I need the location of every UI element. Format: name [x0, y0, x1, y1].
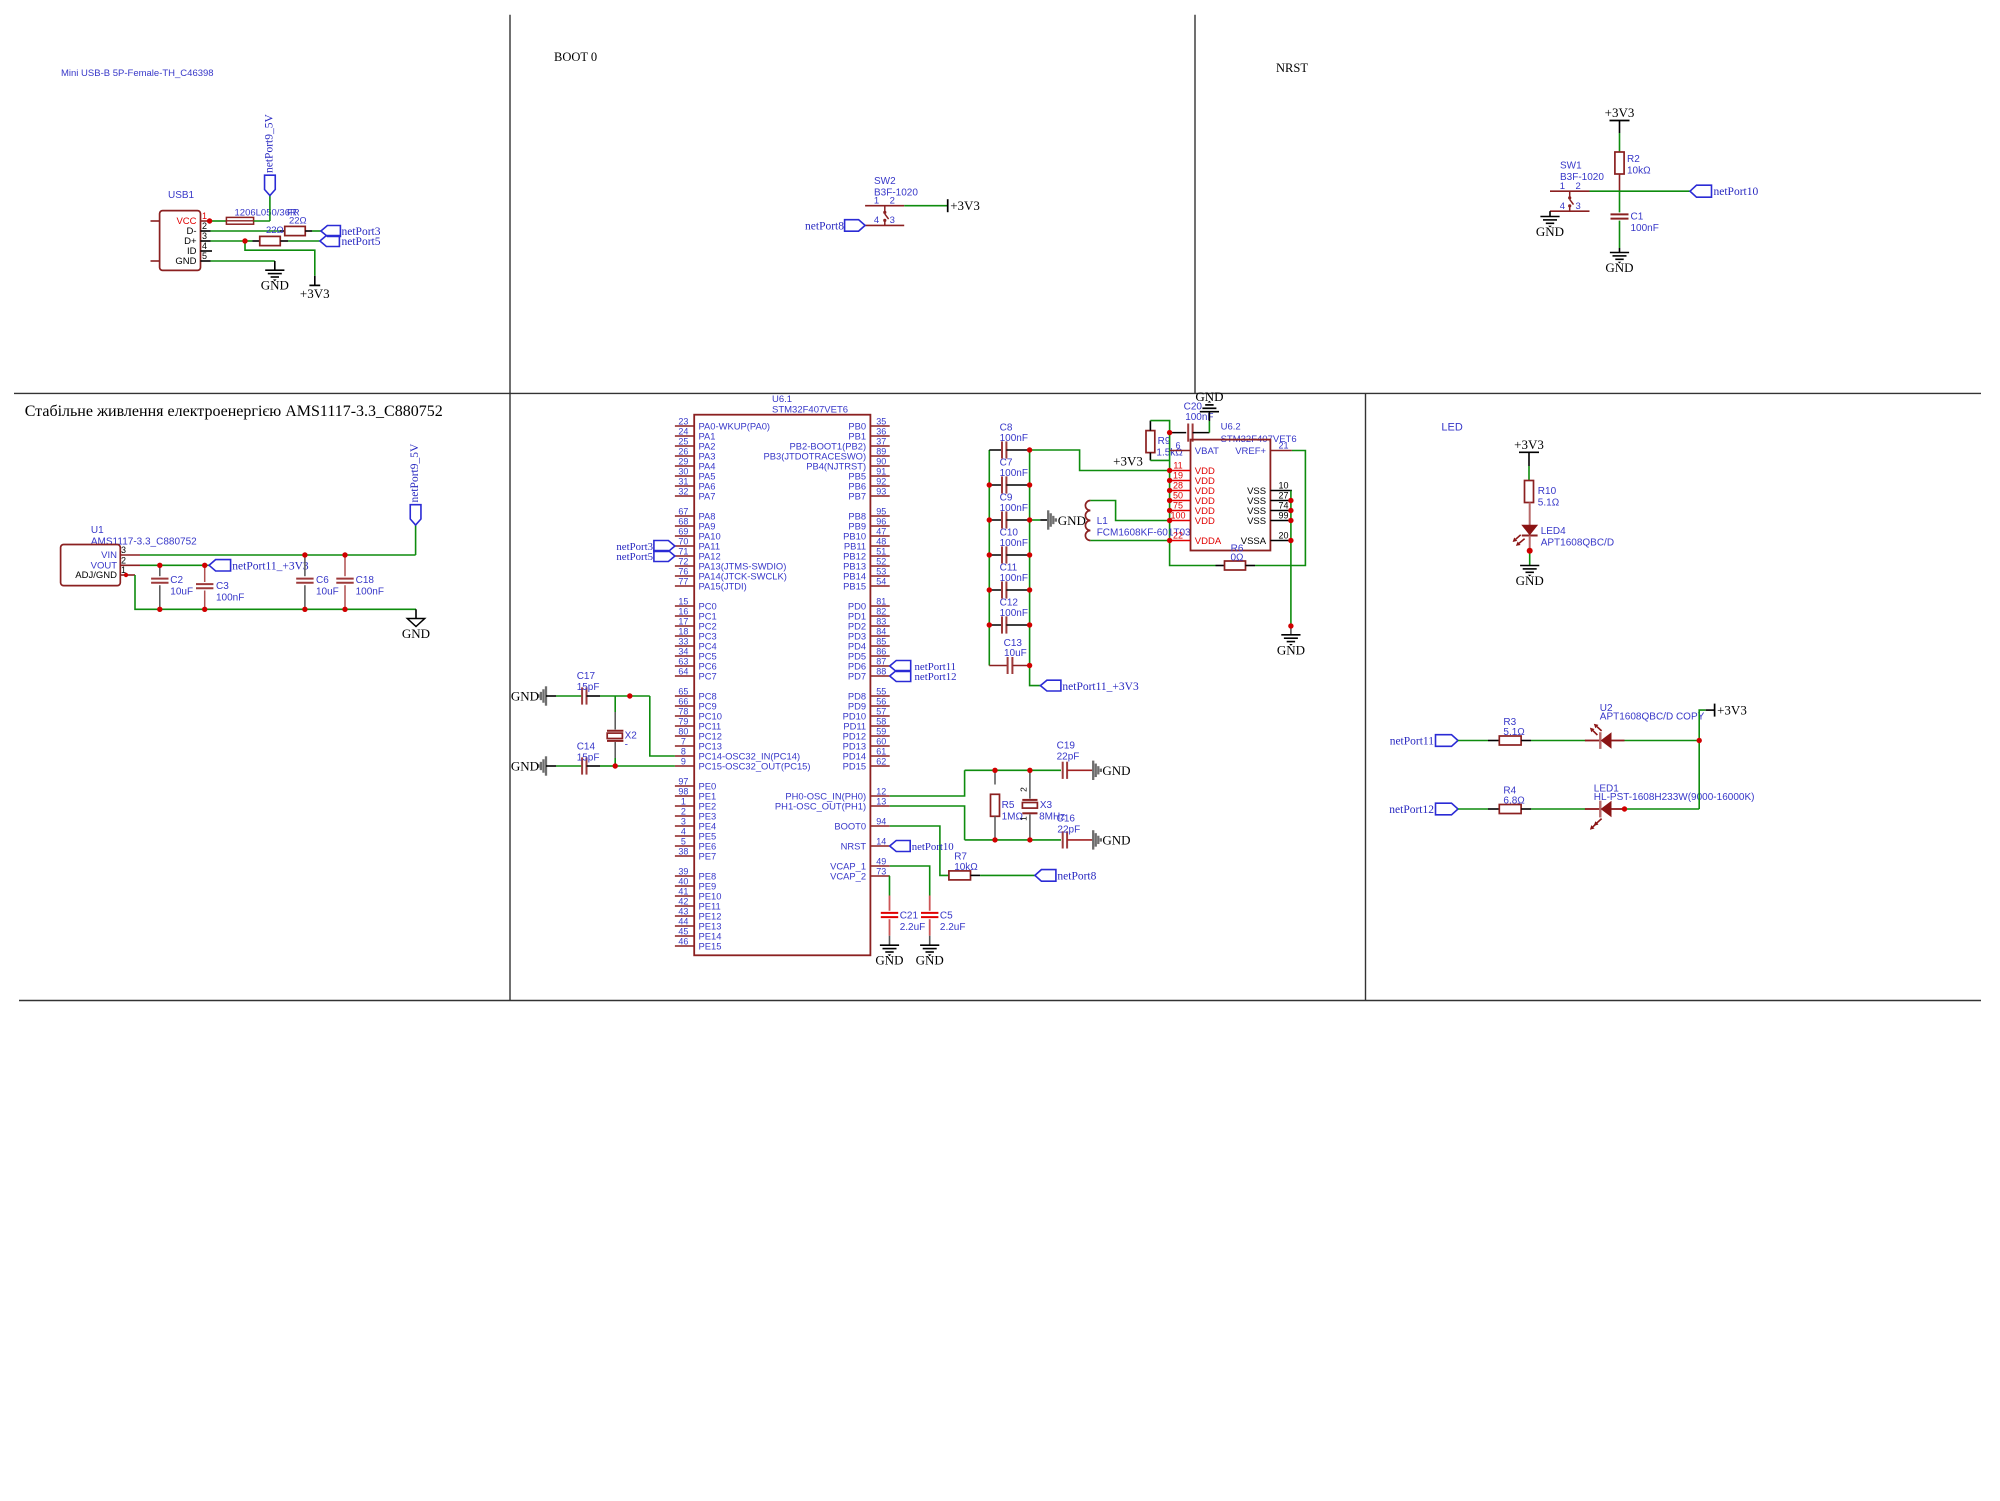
mcu pin 26 PA3 — [675, 455, 694, 457]
sheet divider vertical x1365 — [1365, 393, 1367, 1000]
svg-text:APT1608QBC/D: APT1608QBC/D — [1541, 538, 1614, 549]
svg-text:NRST: NRST — [841, 840, 867, 851]
svg-text:VSS: VSS — [1247, 516, 1266, 527]
svg-text:SW1: SW1 — [1560, 161, 1582, 172]
svg-text:1: 1 — [1019, 816, 1029, 821]
svg-text:PC7: PC7 — [699, 670, 717, 681]
svg-text:+3V3: +3V3 — [1605, 105, 1635, 120]
svg-text:100nF: 100nF — [1000, 608, 1028, 619]
power flag +3V3 (NRST) — [1610, 120, 1630, 122]
svg-text:62: 62 — [876, 756, 886, 766]
mcu pin 77 PA15(JTDI) — [675, 585, 694, 587]
svg-text:43: 43 — [678, 906, 688, 916]
svg-text:98: 98 — [678, 786, 688, 796]
svg-text:100nF: 100nF — [1631, 223, 1659, 234]
svg-text:3: 3 — [890, 215, 895, 226]
svg-text:50: 50 — [1173, 491, 1183, 501]
svg-text:C6: C6 — [316, 575, 329, 586]
resistor R2 10k — [1615, 152, 1624, 174]
junction R5 bottom — [992, 837, 997, 842]
capacitor C2 10uF — [159, 565, 161, 576]
svg-text:GND: GND — [1195, 389, 1223, 404]
svg-text:20: 20 — [1278, 531, 1288, 541]
svg-text:C1: C1 — [1631, 212, 1644, 223]
capacitor C9 100nF — [989, 519, 1002, 521]
svg-text:2.2uF: 2.2uF — [900, 922, 926, 933]
junction — [124, 573, 128, 577]
svg-text:5.1Ω: 5.1Ω — [1538, 497, 1560, 508]
svg-text:74: 74 — [1278, 501, 1288, 511]
USB1 left stub pin GND side — [151, 260, 160, 262]
mcu pin 12 PH0-OSC_IN(PH0) — [870, 795, 889, 797]
wire L1 bottom to VDDA — [1090, 540, 1169, 542]
svg-text:AMS1117-3.3_C880752: AMS1117-3.3_C880752 — [91, 537, 197, 548]
svg-text:75: 75 — [1173, 501, 1183, 511]
junction GND node — [1288, 623, 1293, 628]
USB1 pin 5 GND — [201, 260, 211, 262]
svg-text:3: 3 — [681, 816, 686, 826]
svg-text:15: 15 — [678, 596, 688, 606]
svg-text:GND: GND — [511, 759, 539, 774]
svg-text:PE7: PE7 — [699, 850, 717, 861]
svg-text:C17: C17 — [577, 671, 596, 682]
mcu pin 44 PE13 — [675, 925, 694, 927]
svg-text:76: 76 — [678, 566, 688, 576]
U6.2 pin 28 VDD — [1170, 490, 1191, 492]
mcu pin 36 PB1 — [870, 435, 889, 437]
power flag +3V3 (USB) — [314, 276, 316, 286]
power flag +3V3 (BOOT0) — [947, 199, 949, 212]
power flag +3V3 (LED rows) — [1714, 704, 1716, 717]
svg-text:C11: C11 — [1000, 563, 1018, 574]
junction C9 right — [1027, 517, 1032, 522]
mcu pin 68 PA9 — [675, 525, 694, 527]
svg-text:79: 79 — [678, 716, 688, 726]
svg-text:24: 24 — [678, 426, 688, 436]
svg-text:X3: X3 — [1040, 800, 1053, 811]
svg-text:17: 17 — [678, 616, 688, 626]
svg-text:C9: C9 — [1000, 493, 1013, 504]
mcu pin 41 PE10 — [675, 895, 694, 897]
resistor R? 22ohm (D+ line) — [260, 236, 281, 245]
led LED4 APT1608QBC/D — [1529, 503, 1531, 526]
switch SW1 contacts and lever — [1569, 191, 1571, 197]
svg-text:3: 3 — [121, 545, 126, 555]
svg-text:2: 2 — [681, 806, 686, 816]
switch SW2 contacts and lever — [884, 206, 886, 212]
sheet divider vertical left — [509, 15, 511, 1001]
svg-text:100: 100 — [1170, 511, 1185, 521]
ground GND (USB) — [265, 269, 284, 271]
wire +3V3 net bank to VDD rail — [1030, 450, 1170, 471]
svg-text:14: 14 — [876, 836, 886, 846]
svg-text:+3V3: +3V3 — [300, 286, 330, 301]
svg-text:PC15-OSC32_OUT(PC15): PC15-OSC32_OUT(PC15) — [699, 760, 811, 771]
svg-text:netPort12: netPort12 — [1389, 804, 1434, 816]
junction C2 bottom — [157, 607, 162, 612]
switch SW1 top rail pins 1-2 — [1550, 190, 1590, 192]
wire D- to resistor — [211, 230, 281, 232]
crystal X3 8MHz — [1029, 770, 1031, 798]
svg-text:2: 2 — [890, 195, 895, 206]
svg-text:C19: C19 — [1057, 741, 1076, 752]
svg-text:5.1Ω: 5.1Ω — [1503, 727, 1525, 738]
svg-text:10kΩ: 10kΩ — [1627, 166, 1651, 177]
svg-text:41: 41 — [678, 886, 688, 896]
wire VDDA to R6 — [1170, 541, 1216, 566]
svg-text:85: 85 — [876, 636, 886, 646]
mcu pin 7 PC13 — [675, 745, 694, 747]
svg-text:PE15: PE15 — [699, 940, 722, 951]
capacitor C16 22pF — [1062, 831, 1064, 848]
svg-text:96: 96 — [876, 516, 886, 526]
svg-text:23: 23 — [678, 416, 688, 426]
resistor R7 10k — [949, 871, 971, 880]
svg-text:82: 82 — [876, 606, 886, 616]
mcu pin 33 PC4 — [675, 645, 694, 647]
mcu pin 64 PC7 — [675, 675, 694, 677]
svg-text:3: 3 — [1576, 201, 1581, 212]
power flag +3V3 (R10) — [1519, 451, 1539, 453]
mcu pin 81 PD0 — [870, 605, 889, 607]
U6.2 pin 74 VSS — [1270, 510, 1292, 512]
junction LED +3V3 node — [1697, 738, 1702, 743]
svg-text:VBAT: VBAT — [1195, 446, 1219, 457]
capacitor C21 2.2uF — [889, 896, 891, 911]
svg-text:APT1608QBC/D COPY: APT1608QBC/D COPY — [1600, 712, 1705, 723]
svg-text:2: 2 — [121, 556, 126, 566]
junction VSS rail — [1288, 538, 1293, 543]
mcu pin 47 PB10 — [870, 535, 889, 537]
svg-text:GND: GND — [916, 953, 944, 968]
mcu pin 59 PD12 — [870, 735, 889, 737]
capacitor C5 2.2uF — [929, 896, 931, 911]
svg-text:36: 36 — [876, 426, 886, 436]
mcu pin 86 PD5 — [870, 655, 889, 657]
junction VDD rail — [1167, 478, 1172, 483]
mcu pin 35 PB0 — [870, 425, 889, 427]
svg-text:4: 4 — [681, 826, 686, 836]
resistor R6 0ohm — [1216, 565, 1225, 567]
junction C3 bottom — [202, 607, 207, 612]
svg-text:97: 97 — [678, 776, 688, 786]
svg-text:94: 94 — [876, 816, 886, 826]
junction C18 bottom — [342, 607, 347, 612]
mcu pin 3 PE4 — [675, 825, 694, 827]
junction crystal node top — [627, 693, 632, 698]
USB1 pin 1 VCC — [201, 220, 211, 222]
mcu pin 25 PA2 — [675, 445, 694, 447]
junction VDD rail — [1167, 488, 1172, 493]
svg-text:78: 78 — [678, 706, 688, 716]
net flag netPort10 (NRST section) — [1690, 185, 1712, 197]
U6.2 pin 20 VSSA — [1270, 540, 1292, 542]
junction X3 bottom — [1027, 837, 1032, 842]
switch SW1 bottom rail pins 4-3 — [1550, 210, 1590, 212]
svg-text:10: 10 — [1278, 481, 1288, 491]
mcu pin 29 PA4 — [675, 465, 694, 467]
svg-text:45: 45 — [678, 926, 688, 936]
ground GND triangle (AMS) — [415, 609, 417, 618]
ground flag GND (C14) — [545, 756, 547, 775]
svg-text:netPort11_+3V3: netPort11_+3V3 — [1062, 681, 1139, 693]
junction VDD rail — [1167, 518, 1172, 523]
net flag netPort5 — [320, 236, 340, 247]
svg-text:31: 31 — [678, 476, 688, 486]
svg-text:66: 66 — [678, 696, 688, 706]
svg-text:51: 51 — [876, 546, 886, 556]
capacitor C20 100nF — [1170, 432, 1187, 434]
svg-text:30: 30 — [678, 466, 688, 476]
capacitor C6 10uF — [304, 555, 306, 576]
capacitor C11 100nF — [989, 589, 1002, 591]
svg-text:52: 52 — [876, 556, 886, 566]
svg-text:LED4: LED4 — [1541, 526, 1566, 537]
USB1 pin 4 ID — [201, 250, 213, 252]
mcu pin 13 PH1-OSC_OUT(PH1) — [870, 805, 889, 807]
svg-text:61: 61 — [876, 746, 886, 756]
wire R9 bottom to rail — [1149, 453, 1151, 461]
svg-text:C18: C18 — [356, 575, 375, 586]
resistor R10 5.1ohm — [1525, 481, 1534, 503]
mcu pin 67 PA8 — [675, 515, 694, 517]
junction C2 top — [157, 563, 162, 568]
mcu pin 53 PB14 — [870, 575, 889, 577]
wire SW1/R2 row to netPort10 — [1590, 190, 1691, 192]
svg-text:40: 40 — [678, 876, 688, 886]
capacitor C3 100nF — [204, 565, 206, 582]
svg-text:7: 7 — [681, 736, 686, 746]
svg-text:56: 56 — [876, 696, 886, 706]
svg-text:53: 53 — [876, 566, 886, 576]
mcu pin 56 PD9 — [870, 705, 889, 707]
capacitor C12 100nF — [989, 624, 1002, 626]
junction R5 top — [992, 768, 997, 773]
wire netPort11 to R3 — [1458, 740, 1488, 742]
junction C11 right — [1027, 587, 1032, 592]
svg-text:49: 49 — [876, 856, 886, 866]
U6.2 pin 11 VDD — [1170, 470, 1191, 472]
sheet divider vertical x1195 — [1194, 15, 1196, 394]
svg-text:U6.1: U6.1 — [772, 394, 792, 405]
svg-text:100nF: 100nF — [356, 587, 384, 598]
wire ADJ/GND bottom rail — [135, 575, 416, 609]
capacitor bank right rail — [1029, 450, 1031, 666]
svg-text:VDDA: VDDA — [1195, 536, 1222, 547]
svg-text:88: 88 — [876, 666, 886, 676]
wire SW2 pin2 to +3V3 — [904, 205, 948, 207]
svg-text:26: 26 — [678, 446, 688, 456]
junction VCC node — [207, 218, 212, 223]
svg-text:57: 57 — [876, 706, 886, 716]
U6.2 pin 75 VDD — [1170, 510, 1191, 512]
junction C20 node — [1167, 430, 1172, 435]
svg-text:80: 80 — [678, 726, 688, 736]
svg-text:37: 37 — [876, 436, 886, 446]
U6.2 pin 22 VDDA — [1170, 540, 1191, 542]
svg-text:LED: LED — [1441, 422, 1462, 434]
svg-text:VDD: VDD — [1195, 516, 1215, 527]
net flag netPort8 (BOOT0) — [845, 220, 866, 232]
svg-text:60: 60 — [876, 736, 886, 746]
junction C12 right — [1027, 622, 1032, 627]
svg-text:10uF: 10uF — [170, 587, 193, 598]
mcu pin 66 PC9 — [675, 705, 694, 707]
U6.2 pin 19 VDD — [1170, 480, 1191, 482]
svg-text:netPort10: netPort10 — [1714, 186, 1759, 198]
wire LED1 to +3V3 vertical — [1625, 808, 1700, 810]
svg-text:C21: C21 — [900, 910, 919, 921]
junction C7 left — [987, 482, 992, 487]
svg-text:89: 89 — [876, 446, 886, 456]
svg-text:55: 55 — [876, 686, 886, 696]
mcu pin 42 PE11 — [675, 905, 694, 907]
mcu pin 69 PA10 — [675, 535, 694, 537]
mcu pin 78 PC10 — [675, 715, 694, 717]
ground GND (C1) — [1610, 252, 1629, 254]
mcu U6.2 body — [1191, 440, 1271, 551]
svg-text:1: 1 — [874, 195, 879, 206]
svg-text:C12: C12 — [1000, 598, 1019, 609]
svg-text:C10: C10 — [1000, 528, 1019, 539]
U6.2 pin 21 VREF+ — [1270, 450, 1292, 452]
svg-text:1: 1 — [681, 796, 686, 806]
svg-text:68: 68 — [678, 516, 688, 526]
svg-text:PA7: PA7 — [699, 490, 716, 501]
mcu pin 30 PA5 — [675, 475, 694, 477]
svg-text:100nF: 100nF — [1000, 573, 1028, 584]
svg-text:C5: C5 — [940, 910, 953, 921]
svg-text:1: 1 — [202, 211, 207, 221]
mcu pin 63 PC6 — [675, 665, 694, 667]
junction C8 right — [1027, 447, 1032, 452]
sheet divider horizontal top — [14, 392, 1981, 394]
junction X3 top — [1027, 768, 1032, 773]
wire U2 to +3V3 junction — [1625, 740, 1700, 742]
net flag netPort3 (PA11) — [654, 541, 675, 552]
svg-text:SW2: SW2 — [874, 176, 896, 187]
ground GND (C21) — [880, 944, 899, 946]
junction VSS rail — [1288, 518, 1293, 523]
svg-text:86: 86 — [876, 646, 886, 656]
svg-text:+3V3: +3V3 — [1717, 703, 1747, 718]
mcu pin 52 PB13 — [870, 565, 889, 567]
wire D+ branch to +3V3 — [245, 241, 315, 276]
svg-text:+3V3: +3V3 — [950, 198, 980, 213]
svg-text:28: 28 — [1173, 481, 1183, 491]
svg-text:72: 72 — [678, 556, 688, 566]
resistor R5 1M — [994, 770, 996, 784]
osc bottom rail — [965, 839, 1061, 841]
svg-text:netPort11_+3V3: netPort11_+3V3 — [232, 560, 309, 572]
mcu pin 4 PE5 — [675, 835, 694, 837]
mcu pin 54 PB15 — [870, 585, 889, 587]
mcu pin 97 PE0 — [675, 785, 694, 787]
mcu pin 14 NRST — [870, 845, 889, 847]
svg-text:92: 92 — [876, 476, 886, 486]
svg-text:15pF: 15pF — [577, 753, 600, 764]
junction C9 left — [987, 517, 992, 522]
svg-text:22: 22 — [1173, 531, 1183, 541]
svg-text:2: 2 — [202, 221, 207, 231]
U6.2 pin 50 VDD — [1170, 500, 1191, 502]
svg-text:100nF: 100nF — [1000, 538, 1028, 549]
vss rail vertical — [1290, 491, 1292, 627]
mcu pin 31 PA6 — [675, 485, 694, 487]
ground GND (C5) — [920, 944, 939, 946]
junction D+ node — [242, 238, 247, 243]
net flag netPort11_+3V3 (AMS) — [209, 560, 231, 571]
mcu pin 79 PC11 — [675, 725, 694, 727]
wire VIN rail to netPort9_5V — [140, 554, 416, 556]
mcu pin 62 PD15 — [870, 765, 889, 767]
wire VREF+ down — [1291, 451, 1306, 566]
svg-text:PD7: PD7 — [848, 670, 866, 681]
mcu pin 61 PD14 — [870, 755, 889, 757]
wire L1 top to VDD100 — [1090, 501, 1169, 521]
svg-text:6: 6 — [1175, 441, 1180, 451]
mcu pin 76 PA14(JTCK-SWCLK) — [675, 575, 694, 577]
svg-text:netPort9_5V: netPort9_5V — [264, 114, 276, 173]
junction VDD rail — [1167, 468, 1172, 473]
junction C7 right — [1027, 482, 1032, 487]
svg-text:6.8Ω: 6.8Ω — [1503, 796, 1525, 807]
led U2 APT1608QBC/D COPY — [1585, 740, 1600, 742]
svg-text:99: 99 — [1278, 511, 1288, 521]
svg-text:29: 29 — [678, 456, 688, 466]
regulator U1 body — [61, 545, 121, 586]
wire C20 to GND flag — [1208, 421, 1210, 433]
wire PH1 to osc bottom rail — [890, 806, 965, 840]
svg-text:38: 38 — [678, 846, 688, 856]
mcu pin 39 PE8 — [675, 875, 694, 877]
wire netPort12 to R4 — [1458, 808, 1488, 810]
net flag netPort10 (NRST pin) — [890, 841, 911, 852]
svg-text:+3V3: +3V3 — [1514, 437, 1544, 452]
mcu pin 24 PA1 — [675, 435, 694, 437]
connector USB1 body — [160, 211, 201, 271]
svg-text:-: - — [625, 740, 628, 751]
mcu pin 92 PB6 — [870, 485, 889, 487]
svg-text:90: 90 — [876, 456, 886, 466]
junction C11 left — [987, 587, 992, 592]
svg-text:L1: L1 — [1097, 516, 1109, 527]
ground GND (U6.2) — [1290, 626, 1292, 635]
svg-text:U1: U1 — [91, 525, 104, 536]
net flag netPort3 — [321, 226, 341, 237]
svg-text:1: 1 — [1560, 181, 1565, 192]
svg-text:16: 16 — [678, 606, 688, 616]
svg-text:25: 25 — [678, 436, 688, 446]
mcu pin 71 PA12 — [675, 555, 694, 557]
mcu pin 17 PC2 — [675, 625, 694, 627]
mcu pin 46 PE15 — [675, 945, 694, 947]
resistor R9 1.5k — [1146, 431, 1155, 453]
ground flag GND (C9 row) — [1030, 519, 1041, 521]
svg-text:Стабільне живлення електроенер: Стабільне живлення електроенергією AMS11… — [25, 403, 443, 420]
mcu pin 72 PA13(JTMS-SWDIO) — [675, 565, 694, 567]
junction LED4 cathode — [1527, 548, 1533, 554]
mcu U6.1 body — [694, 415, 870, 956]
capacitor C18 100nF — [344, 555, 346, 576]
svg-text:+3V3: +3V3 — [1113, 454, 1143, 469]
svg-text:22pF: 22pF — [1057, 751, 1080, 762]
mcu pin 2 PE3 — [675, 815, 694, 817]
U6.2 pin 100 VDD — [1170, 520, 1191, 522]
junction VDD rail — [1167, 508, 1172, 513]
svg-text:69: 69 — [678, 526, 688, 536]
svg-text:4: 4 — [874, 215, 879, 226]
